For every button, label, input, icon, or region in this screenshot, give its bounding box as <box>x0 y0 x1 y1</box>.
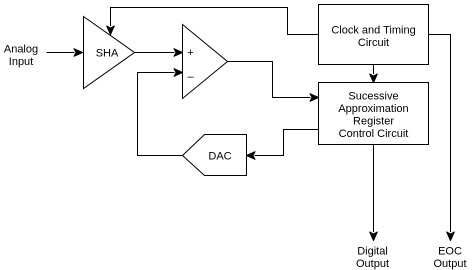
svg-text:Clock and Timing: Clock and Timing <box>331 25 415 37</box>
wire clock to SAR register <box>370 65 378 83</box>
svg-text:Analog: Analog <box>4 44 38 56</box>
wire SAR register to Digital Output <box>370 145 378 241</box>
wire SHA output to comparator plus input <box>135 49 183 57</box>
node EOC Output label <box>433 246 466 270</box>
block DAC U3 <box>183 135 247 176</box>
svg-text:SHA: SHA <box>96 48 119 60</box>
svg-text:Circuit: Circuit <box>358 37 389 49</box>
svg-text:EOC: EOC <box>438 246 462 258</box>
svg-text:DAC: DAC <box>208 151 231 163</box>
node Digital Output label <box>356 246 389 270</box>
svg-text:Sucessive: Sucessive <box>348 91 398 103</box>
svg-text:Register: Register <box>353 116 394 128</box>
svg-text:Output: Output <box>356 258 389 270</box>
wire SAR register to DAC <box>247 130 319 160</box>
block SAR Control Circuit U5 <box>319 83 429 145</box>
svg-text:Control Circuit: Control Circuit <box>339 128 409 140</box>
wire DAC output to comparator minus input <box>138 69 183 156</box>
svg-text:–: – <box>187 71 194 83</box>
svg-text:Digital: Digital <box>357 246 388 258</box>
svg-text:+: + <box>187 47 193 59</box>
svg-text:Output: Output <box>433 258 466 270</box>
wire comparator output to SAR register <box>228 62 319 102</box>
wire clock feedback to SHA (top) <box>107 8 319 35</box>
block Clock and Timing Circuit U4 <box>319 5 429 65</box>
svg-text:Input: Input <box>9 56 33 68</box>
op-amp comparator U2 <box>183 25 228 99</box>
block SHA U1 <box>84 17 135 89</box>
wire clock to EOC Output <box>429 35 455 241</box>
wire Analog Input to SHA <box>47 49 83 57</box>
svg-text:Approximation: Approximation <box>338 103 408 115</box>
node Analog Input label <box>4 44 38 69</box>
